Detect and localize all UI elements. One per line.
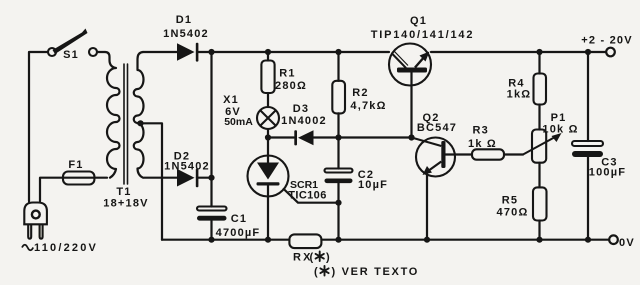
svg-text:280Ω: 280Ω [275,80,307,92]
svg-text:(: ( [310,252,315,264]
svg-text:18+18V: 18+18V [103,198,148,210]
svg-text:470Ω: 470Ω [497,207,529,219]
svg-text:R1: R1 [279,68,295,80]
svg-text:100µF: 100µF [589,167,626,179]
svg-text:R2: R2 [352,87,368,99]
svg-text:BC547: BC547 [417,122,457,134]
svg-text:4,7kΩ: 4,7kΩ [350,100,386,112]
svg-text:1N5402: 1N5402 [163,28,209,40]
svg-text:T1: T1 [116,186,131,198]
svg-text:50mA: 50mA [224,116,253,128]
svg-text:110/220V: 110/220V [34,242,98,254]
svg-text:1N4002: 1N4002 [281,115,327,127]
svg-text:10k Ω: 10k Ω [542,124,578,136]
svg-text:C1: C1 [231,213,247,225]
svg-text:D1: D1 [176,14,192,26]
svg-text:D3: D3 [293,103,309,115]
svg-text:X1: X1 [223,94,239,106]
svg-text:) VER TEXTO: ) VER TEXTO [332,266,420,278]
svg-text:): ) [326,252,331,264]
svg-text:(: ( [314,266,319,278]
svg-text:TIP140/141/142: TIP140/141/142 [371,29,474,41]
svg-text:1k Ω: 1k Ω [468,138,497,150]
svg-text:P1: P1 [551,112,567,124]
svg-text:R3: R3 [472,125,488,137]
svg-text:R5: R5 [502,195,518,207]
svg-text:0V: 0V [619,237,635,249]
svg-text:1N5402: 1N5402 [164,161,210,173]
svg-text:1kΩ: 1kΩ [507,89,532,101]
svg-text:+2 - 20V: +2 - 20V [581,35,633,47]
svg-text:Q1: Q1 [410,15,427,27]
svg-text:S1: S1 [63,49,79,61]
svg-text:F1: F1 [68,159,83,171]
svg-text:4700µF: 4700µF [216,227,261,239]
svg-text:TIC106: TIC106 [288,190,326,202]
svg-text:10µF: 10µF [358,179,388,191]
